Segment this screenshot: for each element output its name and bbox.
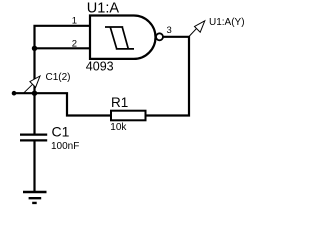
- wire capacitor to ground: [33, 141, 35, 191]
- ground: [23, 192, 47, 203]
- svg-text:3: 3: [167, 25, 172, 36]
- wire pin1 + left vertical down to capacitor: [35, 26, 91, 134]
- schmitt hysteresis symbol: [105, 27, 134, 49]
- node junction C1 column / feedback row: [32, 91, 37, 96]
- probe C1(2) line: [24, 84, 33, 93]
- svg-text:C1(2): C1(2): [46, 72, 71, 83]
- op-amp U1 gate body (4093 NAND): [90, 16, 156, 59]
- probe U1:A(Y) line: [189, 28, 198, 37]
- svg-text:R1: R1: [111, 95, 128, 110]
- svg-text:U1:A: U1:A: [87, 1, 120, 17]
- wire pin2: [35, 47, 91, 49]
- svg-text:1: 1: [72, 16, 77, 27]
- wire output pin3 right then down to R1 right: [146, 37, 190, 116]
- probe C1(2) arrowhead: [30, 76, 40, 87]
- svg-text:C1: C1: [52, 124, 70, 140]
- probe U1:A(Y) arrowhead: [195, 21, 205, 32]
- inverter bubble: [156, 33, 163, 40]
- svg-text:2: 2: [72, 38, 77, 49]
- svg-text:4093: 4093: [86, 60, 114, 74]
- node junction pins 1-2: [32, 46, 37, 51]
- svg-text:U1:A(Y): U1:A(Y): [209, 17, 245, 28]
- svg-text:100nF: 100nF: [51, 141, 79, 152]
- wire feedback row from probe stub to R1 left: [14, 93, 111, 115]
- node probe pin dot: [12, 91, 17, 96]
- capacitor C1 plates: [20, 135, 47, 141]
- svg-text:10k: 10k: [110, 122, 127, 133]
- resistor R1 box: [111, 111, 146, 121]
